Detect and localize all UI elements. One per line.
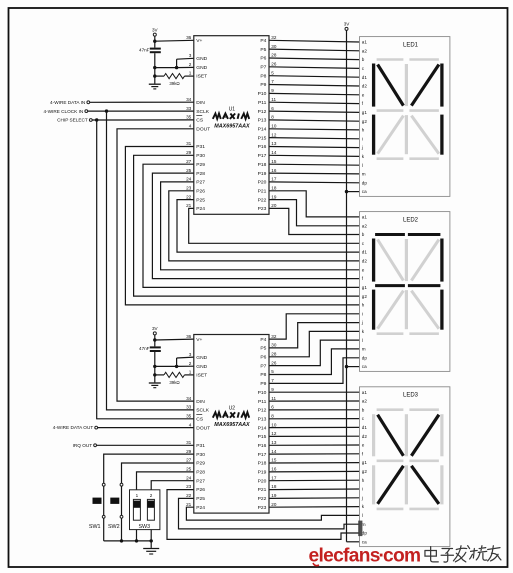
wire U2 P15 to LED3 segment d2 bbox=[269, 435, 360, 437]
wire U2 P26 to LED3 segment dp bbox=[167, 490, 360, 540]
svg-text:15: 15 bbox=[271, 458, 277, 463]
svg-text:P29: P29 bbox=[196, 162, 205, 168]
svg-text:P29: P29 bbox=[196, 461, 205, 467]
svg-text:24: 24 bbox=[186, 177, 192, 182]
wire down to ISET resistor node bbox=[153, 68, 156, 78]
svg-text:CHIP SELECT: CHIP SELECT bbox=[57, 118, 88, 123]
ground symbol below switches bbox=[143, 541, 159, 554]
svg-text:d2: d2 bbox=[362, 84, 368, 89]
ground symbol below ISET resistor (U1) bbox=[149, 76, 161, 89]
svg-text:P24: P24 bbox=[196, 505, 205, 511]
svg-text:DOUT: DOUT bbox=[196, 127, 210, 133]
svg-text:3: 3 bbox=[189, 53, 192, 58]
svg-text:39kΩ: 39kΩ bbox=[169, 81, 180, 86]
wire U1 P29 to LED2 segment g1 bbox=[143, 164, 360, 287]
svg-text:P14: P14 bbox=[258, 425, 267, 431]
LED3 segment c (off) bbox=[440, 465, 443, 504]
svg-text:32: 32 bbox=[271, 35, 277, 40]
wire U1 P7 to LED1 segment c bbox=[269, 67, 360, 69]
svg-text:14: 14 bbox=[271, 449, 277, 454]
svg-text:3V: 3V bbox=[152, 27, 159, 32]
wire U2 P31 pin 31 to IRQ OUT terminal bbox=[97, 444, 194, 446]
svg-text:47nF: 47nF bbox=[139, 346, 150, 351]
svg-text:24: 24 bbox=[186, 475, 192, 480]
svg-text:U2: U2 bbox=[229, 405, 236, 411]
wire GND pin 2 of U1 bbox=[155, 66, 194, 69]
LED1 segment g1 (off) bbox=[377, 109, 404, 112]
LED1 segment h (lit) bbox=[378, 65, 404, 106]
svg-text:P4: P4 bbox=[260, 38, 266, 44]
wire U2 P24 to LED3 segment l bbox=[186, 507, 359, 520]
svg-text:ISET: ISET bbox=[196, 74, 207, 80]
svg-text:10: 10 bbox=[271, 422, 277, 427]
svg-text:25: 25 bbox=[186, 467, 192, 472]
LED1 segment a2 (off) bbox=[409, 58, 439, 61]
svg-text:P19: P19 bbox=[258, 171, 267, 177]
watermark chinese characters bbox=[425, 546, 501, 562]
svg-text:ca: ca bbox=[362, 189, 367, 194]
svg-text:22: 22 bbox=[186, 493, 192, 498]
LED2 segment h (off) bbox=[378, 240, 404, 281]
svg-text:DOUT: DOUT bbox=[196, 425, 210, 431]
svg-text:P20: P20 bbox=[258, 180, 267, 186]
wire SW3-1 to common ground line bbox=[136, 530, 138, 541]
svg-text:d2: d2 bbox=[362, 434, 368, 439]
LED2 segment b (lit) bbox=[440, 239, 443, 282]
LED2 segment e (lit) bbox=[372, 290, 375, 330]
wire U2 DOUT pin 4 to DATA OUT terminal bbox=[98, 427, 194, 429]
svg-text:6: 6 bbox=[271, 405, 274, 410]
resistor R2 39k ISET bbox=[155, 372, 194, 385]
LED2 segment a2 (lit) bbox=[408, 233, 441, 236]
svg-text:P16: P16 bbox=[258, 443, 267, 449]
svg-text:P18: P18 bbox=[258, 162, 267, 168]
svg-text:P7: P7 bbox=[260, 363, 266, 369]
svg-text:4-WIRE DATA OUT: 4-WIRE DATA OUT bbox=[53, 425, 94, 430]
svg-text:19: 19 bbox=[271, 493, 277, 498]
svg-text:3V: 3V bbox=[344, 22, 351, 27]
wire U2 P10 to LED3 segment a1 bbox=[269, 391, 360, 393]
svg-text:b: b bbox=[362, 57, 365, 62]
svg-text:SW3: SW3 bbox=[138, 524, 150, 530]
wire SW2 to common ground line bbox=[121, 518, 123, 541]
wire U2 P11 to LED3 segment a2 bbox=[269, 400, 360, 402]
svg-text:P10: P10 bbox=[258, 91, 267, 97]
svg-text:P24: P24 bbox=[196, 206, 205, 212]
svg-text:31: 31 bbox=[186, 141, 192, 146]
wire chip-select chain down to U2 CS pin 35 bbox=[97, 120, 194, 419]
wire U2 P22 to LED3 segment j bbox=[269, 497, 360, 500]
svg-text:9: 9 bbox=[271, 88, 274, 93]
supply 3V terminal (U1) bbox=[152, 27, 159, 36]
svg-text:d1: d1 bbox=[362, 250, 368, 255]
wire 3V to V+ pin 36 of U2 bbox=[153, 335, 194, 342]
svg-text:i: i bbox=[362, 311, 363, 316]
wire U1 P12 to LED1 segment g1 bbox=[269, 111, 360, 112]
wire U1 P5 to LED1 segment a2 bbox=[269, 49, 360, 51]
svg-text:g1: g1 bbox=[362, 285, 368, 290]
wire GND pin 3 jumper of U2 bbox=[177, 357, 194, 366]
wire U1 P30 to LED2 segment g2 bbox=[134, 155, 360, 296]
svg-text:P12: P12 bbox=[258, 109, 267, 115]
svg-text:V+: V+ bbox=[196, 337, 202, 343]
wire U1 P11 to LED1 segment f bbox=[269, 102, 360, 103]
supply 3V terminal (U2) bbox=[152, 326, 159, 335]
LED display LED1 bbox=[360, 37, 450, 197]
svg-text:SCLK: SCLK bbox=[196, 109, 210, 115]
svg-text:3V: 3V bbox=[152, 326, 159, 331]
svg-text:39kΩ: 39kΩ bbox=[169, 380, 180, 385]
svg-text:12: 12 bbox=[271, 132, 277, 137]
LED2 segment a1 (lit) bbox=[375, 233, 405, 236]
svg-text:P17: P17 bbox=[258, 153, 267, 159]
svg-text:20: 20 bbox=[271, 502, 277, 507]
svg-text:MAX6957AAX: MAX6957AAX bbox=[214, 123, 250, 129]
node LED3 ca area mark bbox=[358, 521, 362, 537]
LED3 segment e (off) bbox=[372, 465, 375, 504]
LED3 segment k (lit) bbox=[378, 466, 404, 504]
LED1 segment f (lit) bbox=[372, 64, 375, 107]
svg-text:h: h bbox=[362, 478, 365, 483]
svg-text:j: j bbox=[361, 145, 363, 150]
svg-text:29: 29 bbox=[186, 449, 192, 454]
svg-text:13: 13 bbox=[271, 440, 277, 445]
wire U1 P9 to LED1 segment d2 bbox=[269, 85, 360, 87]
wire U1 P13 to LED1 segment g2 bbox=[269, 120, 360, 121]
wire U1 P31 to LED2 segment h bbox=[125, 147, 359, 305]
svg-text:17: 17 bbox=[271, 475, 277, 480]
svg-text:P5: P5 bbox=[260, 47, 266, 53]
terminal 4-WIRE DATA OUT bbox=[53, 425, 98, 430]
LED3 segment h (lit) bbox=[378, 415, 404, 456]
svg-text:P28: P28 bbox=[196, 171, 205, 177]
wire GND pin 2 of U2 bbox=[155, 365, 194, 368]
LED1 segment c (lit) bbox=[440, 115, 443, 155]
node chip-select branch bbox=[95, 118, 98, 121]
svg-text:GND: GND bbox=[196, 65, 207, 71]
wire U2 P19 to LED3 segment g2 bbox=[269, 470, 360, 473]
svg-text:13: 13 bbox=[271, 141, 277, 146]
svg-text:e: e bbox=[362, 267, 365, 272]
svg-text:j: j bbox=[361, 495, 363, 500]
wire 3V to V+ pin 36 of U1 bbox=[153, 36, 194, 43]
svg-text:i: i bbox=[362, 136, 363, 141]
svg-text:30: 30 bbox=[271, 44, 277, 49]
svg-text:P17: P17 bbox=[258, 452, 267, 458]
wire U2 P16 to LED3 segment e bbox=[269, 444, 360, 446]
svg-text:P8: P8 bbox=[260, 372, 266, 378]
svg-text:P20: P20 bbox=[258, 478, 267, 484]
LED2 segment d2 (off) bbox=[409, 332, 439, 335]
svg-text:27: 27 bbox=[186, 458, 192, 463]
wire U2 P28 to SW3 position 1 bbox=[137, 472, 194, 490]
svg-text:m: m bbox=[362, 347, 366, 352]
svg-text:DIN: DIN bbox=[196, 100, 205, 106]
wire U1 P18 to LED1 segment l bbox=[269, 164, 360, 165]
svg-text:14: 14 bbox=[271, 150, 277, 155]
wire CLOCK IN to U1 SCLK pin 33 bbox=[88, 110, 194, 112]
svg-text:P16: P16 bbox=[258, 144, 267, 150]
svg-text:21: 21 bbox=[186, 502, 192, 507]
svg-text:11: 11 bbox=[271, 396, 276, 401]
svg-text:3: 3 bbox=[189, 352, 192, 357]
LED3 segment l (off) bbox=[405, 465, 408, 504]
wire U1 P8 to LED1 segment d1 bbox=[269, 76, 360, 78]
wire U2 P14 to LED3 segment d1 bbox=[269, 426, 360, 428]
svg-text:b: b bbox=[362, 407, 365, 412]
svg-text:l: l bbox=[362, 163, 363, 168]
terminal 4-WIRE DATA IN bbox=[50, 100, 90, 105]
LED3 segment f (off) bbox=[372, 414, 375, 456]
svg-text:25: 25 bbox=[186, 168, 192, 173]
resistor R1 39k ISET bbox=[155, 74, 194, 87]
svg-text:P21: P21 bbox=[258, 188, 267, 194]
wire U2 P21 to LED3 segment i bbox=[269, 488, 360, 491]
wire U1 P27 to LED2 segment e bbox=[161, 182, 360, 270]
svg-text:a2: a2 bbox=[362, 399, 368, 404]
LED2 segment g1 (lit) bbox=[375, 284, 405, 287]
svg-text:P8: P8 bbox=[260, 73, 266, 79]
LED1 segment g2 (off) bbox=[409, 109, 439, 112]
IC U1 MAX6957AAX bbox=[186, 35, 277, 214]
svg-text:a1: a1 bbox=[362, 215, 368, 220]
svg-text:P9: P9 bbox=[260, 381, 266, 387]
LED2 segment d1 (off) bbox=[377, 332, 404, 335]
svg-text:l: l bbox=[362, 513, 363, 518]
svg-text:15: 15 bbox=[271, 159, 277, 164]
svg-text:a2: a2 bbox=[362, 223, 368, 228]
node: C1/GND/ISET junction bbox=[153, 66, 156, 69]
svg-text:DIN: DIN bbox=[196, 399, 205, 405]
svg-text:12: 12 bbox=[271, 431, 277, 436]
svg-text:dp: dp bbox=[362, 531, 368, 536]
LED2 segment l (off) bbox=[405, 290, 408, 329]
svg-text:CS: CS bbox=[196, 416, 204, 422]
svg-text:P25: P25 bbox=[196, 496, 205, 502]
svg-text:e: e bbox=[362, 443, 365, 448]
svg-text:1: 1 bbox=[136, 493, 139, 498]
wire U1 DOUT pin 4 to U2 DIN pin 34 bbox=[117, 129, 194, 401]
LED1 segment e (lit) bbox=[372, 115, 375, 155]
svg-text:1: 1 bbox=[189, 369, 192, 374]
svg-text:a1: a1 bbox=[362, 390, 368, 395]
LED display LED2 bbox=[360, 212, 450, 372]
svg-text:5: 5 bbox=[271, 369, 274, 374]
LED1 segment b (lit) bbox=[440, 64, 443, 107]
svg-text:IRQ OUT: IRQ OUT bbox=[73, 443, 93, 448]
svg-text:P28: P28 bbox=[196, 470, 205, 476]
svg-text:28: 28 bbox=[271, 352, 277, 357]
svg-text:P13: P13 bbox=[258, 416, 267, 422]
wire U1 P22 to LED2 segment a2 bbox=[269, 200, 360, 226]
svg-text:20: 20 bbox=[271, 203, 277, 208]
svg-text:4-WIRE CLOCK IN: 4-WIRE CLOCK IN bbox=[43, 109, 83, 114]
svg-text:P26: P26 bbox=[196, 487, 205, 493]
wire rail to LED1 ca bbox=[347, 191, 360, 193]
LED2 segment j (off) bbox=[411, 240, 439, 281]
svg-text:2: 2 bbox=[150, 493, 153, 498]
svg-text:j: j bbox=[361, 320, 363, 325]
LED3 segment a1 (off) bbox=[377, 408, 404, 411]
wire U2 P9 to LED2 segment dp bbox=[269, 358, 360, 384]
wire U2 P5 to LED2 segment j bbox=[269, 323, 360, 348]
wire rail to LED2 ca bbox=[347, 366, 360, 368]
IC U2 MAX6957AAX bbox=[186, 334, 277, 513]
LED3 segment g1 (off) bbox=[377, 459, 404, 462]
wire U2 P13 to LED3 segment c bbox=[269, 418, 360, 420]
svg-text:ISET: ISET bbox=[196, 372, 207, 378]
wire U1 P23 to LED2 segment b bbox=[269, 208, 360, 234]
svg-text:30: 30 bbox=[271, 343, 277, 348]
wire U2 P18 to LED3 segment g1 bbox=[269, 462, 360, 464]
svg-text:e: e bbox=[362, 92, 365, 97]
svg-text:ca: ca bbox=[362, 364, 367, 369]
wire U1 P14 to LED1 segment h bbox=[269, 129, 360, 130]
svg-text:P13: P13 bbox=[258, 118, 267, 124]
svg-text:P9: P9 bbox=[260, 82, 266, 88]
svg-text:m: m bbox=[362, 172, 366, 177]
svg-text:8: 8 bbox=[271, 413, 274, 418]
wire U2 P4 to LED2 segment i bbox=[269, 314, 360, 339]
svg-text:MAX6957AAX: MAX6957AAX bbox=[214, 422, 250, 428]
svg-text:16: 16 bbox=[271, 168, 277, 173]
svg-text:P23: P23 bbox=[258, 505, 267, 511]
svg-text:P11: P11 bbox=[258, 100, 267, 106]
svg-text:4: 4 bbox=[189, 124, 192, 129]
svg-text:34: 34 bbox=[186, 97, 192, 102]
svg-text:P25: P25 bbox=[196, 197, 205, 203]
svg-text:P27: P27 bbox=[196, 180, 205, 186]
wire U1 P17 to LED1 segment k bbox=[269, 155, 360, 156]
svg-text:32: 32 bbox=[271, 334, 277, 339]
svg-text:a1: a1 bbox=[362, 40, 368, 45]
wire U1 P28 to LED2 segment f bbox=[152, 173, 359, 279]
svg-text:47nF: 47nF bbox=[139, 47, 150, 52]
wire SW1 to common ground line bbox=[103, 518, 105, 541]
svg-text:23: 23 bbox=[186, 484, 192, 489]
svg-text:SCLK: SCLK bbox=[196, 408, 210, 414]
node LED1 ca junction bbox=[345, 190, 348, 193]
svg-text:LED3: LED3 bbox=[403, 393, 419, 399]
LED2 segment i (off) bbox=[405, 239, 408, 281]
svg-text:6: 6 bbox=[271, 106, 274, 111]
svg-text:11: 11 bbox=[271, 97, 276, 102]
svg-text:h: h bbox=[362, 128, 365, 133]
wire U2 P23 to LED3 segment k bbox=[269, 506, 360, 509]
node clock branch bbox=[105, 109, 108, 112]
svg-text:22: 22 bbox=[186, 194, 192, 199]
LED3 segment g2 (off) bbox=[409, 459, 439, 462]
svg-text:P30: P30 bbox=[196, 452, 205, 458]
svg-text:dp: dp bbox=[362, 355, 368, 360]
svg-text:d1: d1 bbox=[362, 75, 368, 80]
LED1 segment k (off) bbox=[378, 116, 404, 154]
capacitor C2 47nF bbox=[139, 340, 161, 366]
terminal 4-WIRE CLOCK IN bbox=[43, 109, 87, 114]
svg-text:GND: GND bbox=[196, 364, 207, 370]
svg-text:P6: P6 bbox=[260, 355, 266, 361]
wire CHIP SELECT to U1 CS pin 35 bbox=[92, 119, 194, 121]
svg-text:P26: P26 bbox=[196, 188, 205, 194]
svg-text:P31: P31 bbox=[196, 144, 205, 150]
svg-text:GND: GND bbox=[196, 56, 207, 62]
wire U1 P19 to LED1 segment m bbox=[269, 172, 360, 175]
svg-text:P7: P7 bbox=[260, 65, 266, 71]
wire U2 P7 to LED2 segment l bbox=[269, 340, 360, 366]
wire U1 P10 to LED1 segment e bbox=[269, 93, 360, 94]
wire 3V common-anode rail bbox=[346, 30, 348, 541]
svg-text:dp: dp bbox=[362, 180, 368, 185]
node: C2/GND/ISET junction bbox=[153, 365, 156, 368]
svg-text:P27: P27 bbox=[196, 478, 205, 484]
LED1 segment m (off) bbox=[411, 116, 439, 154]
svg-text:d1: d1 bbox=[362, 425, 368, 430]
svg-text:P21: P21 bbox=[258, 487, 267, 493]
LED3 segment j (lit) bbox=[411, 415, 439, 456]
svg-text:18: 18 bbox=[271, 484, 277, 489]
svg-text:28: 28 bbox=[271, 53, 277, 58]
svg-text:P15: P15 bbox=[258, 434, 267, 440]
wire U1 P26 to LED2 segment d2 bbox=[169, 191, 360, 261]
wire DATA IN to U1 DIN pin 34 bbox=[90, 101, 194, 103]
wire U2 P27 to SW3 position 2 bbox=[151, 481, 194, 490]
svg-text:36: 36 bbox=[186, 334, 192, 339]
svg-text:2: 2 bbox=[189, 62, 192, 67]
wire SW3-2 to common ground line bbox=[150, 530, 152, 541]
svg-text:1: 1 bbox=[189, 71, 192, 76]
svg-text:10: 10 bbox=[271, 124, 277, 129]
svg-text:CS: CS bbox=[196, 118, 204, 124]
svg-text:P14: P14 bbox=[258, 127, 267, 133]
svg-text:i: i bbox=[362, 487, 363, 492]
supply 3V terminal (LED common anode rail) bbox=[344, 22, 351, 31]
svg-text:5: 5 bbox=[271, 70, 274, 75]
svg-text:26: 26 bbox=[271, 62, 277, 67]
svg-text:31: 31 bbox=[186, 440, 192, 445]
svg-text:LED1: LED1 bbox=[403, 42, 419, 48]
LED1 segment l (off) bbox=[405, 115, 408, 154]
svg-text:4-WIRE DATA IN: 4-WIRE DATA IN bbox=[50, 100, 85, 105]
svg-text:P18: P18 bbox=[258, 461, 267, 467]
svg-text:g2: g2 bbox=[362, 294, 368, 299]
ground symbol below ISET resistor (U2) bbox=[149, 375, 161, 388]
node LED2 ca junction bbox=[345, 365, 348, 368]
terminal CHIP SELECT bbox=[57, 118, 92, 123]
svg-text:7: 7 bbox=[271, 378, 274, 383]
svg-text:P4: P4 bbox=[260, 337, 266, 343]
svg-text:16: 16 bbox=[271, 467, 277, 472]
svg-text:a2: a2 bbox=[362, 48, 368, 53]
svg-text:P23: P23 bbox=[258, 206, 267, 212]
svg-text:7: 7 bbox=[271, 79, 274, 84]
wire U1 P21 to LED2 segment a1 bbox=[269, 191, 360, 217]
svg-text:b: b bbox=[362, 232, 365, 237]
svg-text:P6: P6 bbox=[260, 56, 266, 62]
wire U2 P20 to LED3 segment h bbox=[269, 479, 360, 482]
svg-text:27: 27 bbox=[186, 159, 192, 164]
wire U2 P17 to LED3 segment f bbox=[269, 453, 360, 455]
wire clock chain down to U2 SCLK pin 33 bbox=[107, 111, 194, 410]
svg-text:P31: P31 bbox=[196, 443, 205, 449]
terminal IRQ OUT bbox=[73, 443, 97, 448]
svg-text:P19: P19 bbox=[258, 470, 267, 476]
switch SW1 bbox=[89, 483, 105, 530]
svg-text:29: 29 bbox=[186, 150, 192, 155]
wire GND pin 3 jumper of U1 bbox=[177, 58, 194, 67]
svg-text:19: 19 bbox=[271, 194, 277, 199]
svg-text:GND: GND bbox=[196, 355, 207, 361]
svg-text:LED2: LED2 bbox=[403, 217, 419, 223]
